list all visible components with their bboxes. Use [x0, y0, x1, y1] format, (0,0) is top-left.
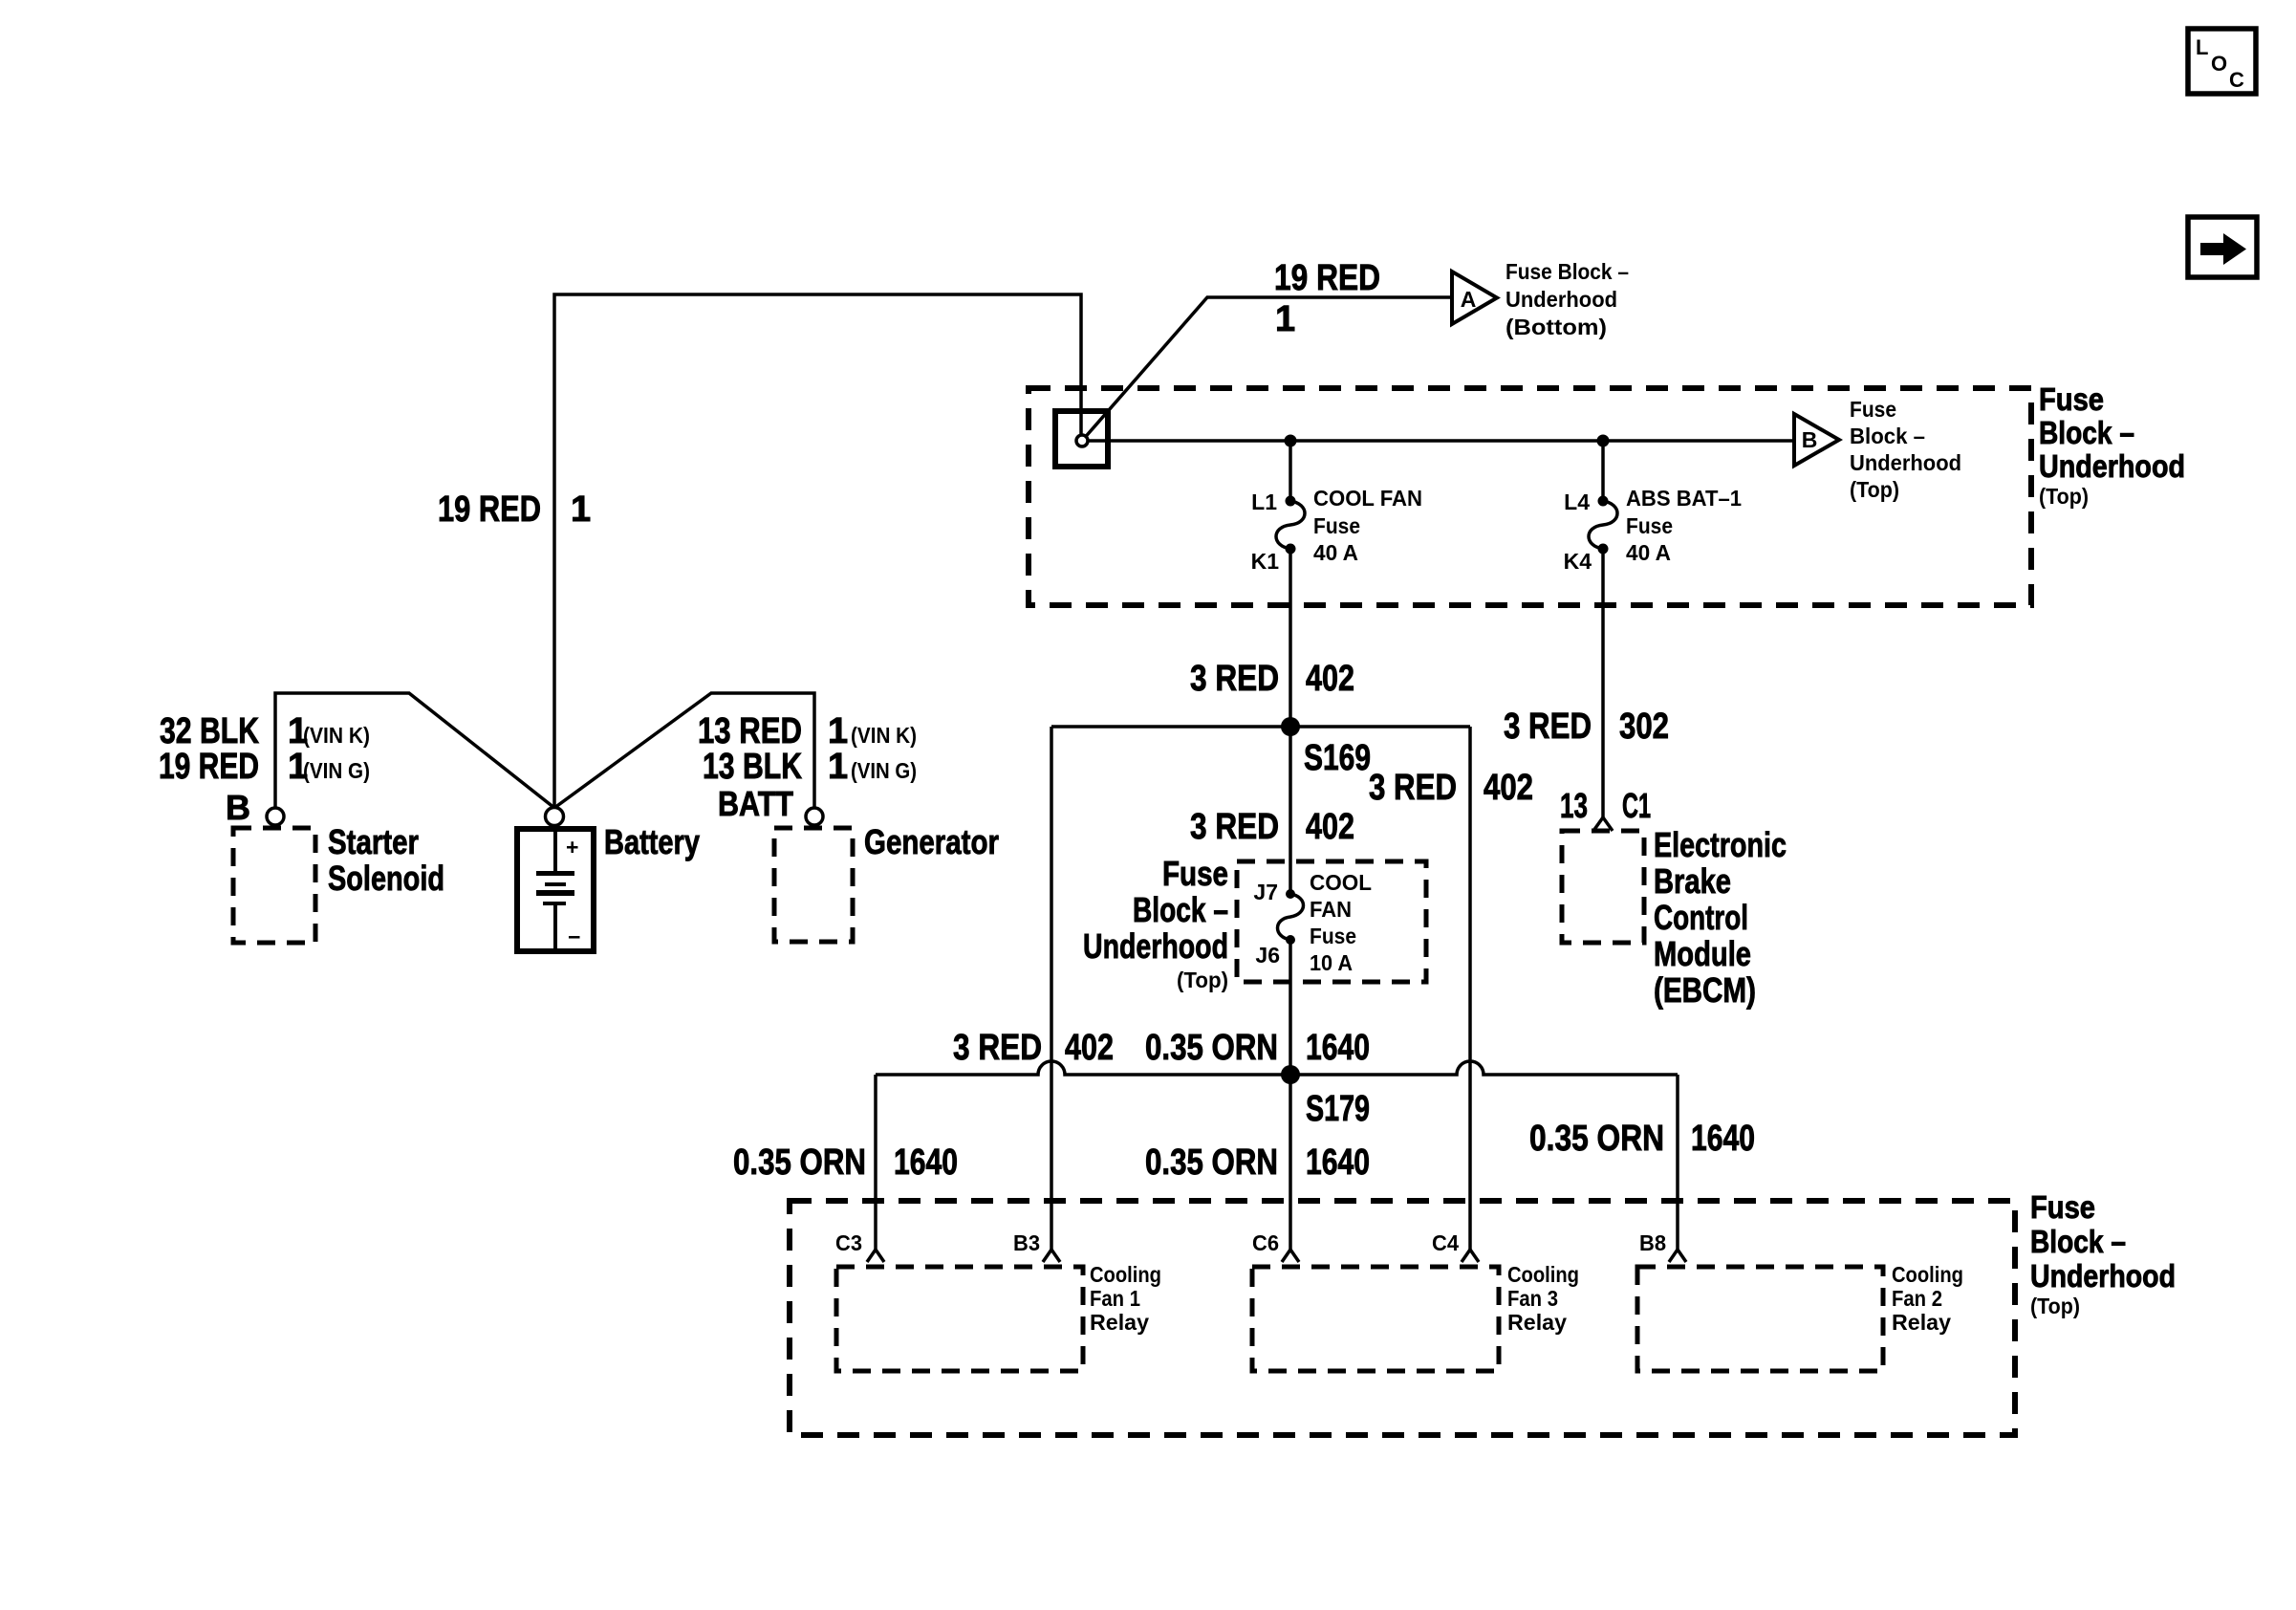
svg-text:A: A [1461, 287, 1477, 312]
svg-text:Fan 1: Fan 1 [1090, 1286, 1140, 1311]
splice S179 wire with crossover hops [876, 1061, 1678, 1129]
fuse COOL FAN 40 A element [1276, 496, 1305, 555]
svg-text:(Bottom): (Bottom) [1505, 315, 1607, 339]
svg-text:L1: L1 [1251, 490, 1277, 514]
cooling fan 1 relay (dashed outline) [836, 1267, 1083, 1371]
svg-text:C3: C3 [835, 1230, 862, 1255]
fuse block underhood (top) bottom big dashed box with relays [790, 1201, 2015, 1435]
cooling fan 3 relay (dashed outline) [1252, 1267, 1499, 1371]
wire 13 RED / 13 BLK from generator BATT to battery junction [554, 693, 814, 808]
svg-text:B3: B3 [1013, 1230, 1040, 1255]
off-page connector triangle B [1794, 414, 1839, 466]
svg-text:3 RED: 3 RED [953, 1028, 1042, 1068]
label 3 RED 402 above S179 left crossover [953, 1028, 1114, 1068]
svg-text:(Top): (Top) [1850, 477, 1899, 502]
svg-text:Fuse: Fuse [1310, 924, 1356, 948]
svg-text:Module: Module [1654, 934, 1751, 973]
connector chevron at C4 [1462, 1250, 1479, 1262]
wire 3 RED 402 left branch of S169 down to relay pin B3 [1050, 727, 1053, 1251]
wire diagonal from feed stud to off-page triangle A [1082, 297, 1452, 441]
label 19 RED 1 (VIN G) [159, 747, 370, 787]
battery feed stud (solid box with ring terminal) [1055, 411, 1108, 467]
electronic brake control module (dashed outline) [1562, 831, 1644, 943]
svg-text:BATT: BATT [718, 784, 793, 823]
fuse block underhood (top) big dashed box [1029, 388, 2031, 605]
wire 3 RED 402 from fuse K1 down to splice S169 [1289, 549, 1292, 727]
svg-text:1640: 1640 [894, 1142, 958, 1183]
wire 3 RED 302 from fuse K4 down to EBCM pin 13 [1601, 549, 1605, 817]
wire bus down to COOL FAN fuse terminal L1 [1289, 441, 1292, 501]
label 13 BLK 1 (VIN G) [703, 747, 917, 787]
svg-text:0.35 ORN: 0.35 ORN [1145, 1142, 1278, 1183]
svg-text:Relay: Relay [1507, 1310, 1567, 1335]
svg-text:C6: C6 [1252, 1230, 1279, 1255]
label Starter Solenoid [328, 822, 444, 898]
label 3 RED 302 [1504, 707, 1669, 747]
label ABS BAT-1 Fuse 40 A [1626, 486, 1742, 565]
label 3 RED 402 above S169 [1190, 659, 1354, 699]
svg-text:Fuse: Fuse [1162, 854, 1228, 893]
svg-text:Relay: Relay [1892, 1310, 1951, 1335]
label Cooling Fan 2 Relay [1892, 1262, 1963, 1335]
svg-text:Cooling: Cooling [1507, 1262, 1579, 1287]
terminal ring at starter solenoid B [267, 808, 284, 825]
svg-text:C4: C4 [1432, 1230, 1459, 1255]
splice S169 [1051, 717, 1470, 778]
svg-text:Underhood: Underhood [1850, 450, 1961, 475]
svg-text:1: 1 [828, 747, 848, 787]
svg-text:Cooling: Cooling [1892, 1262, 1963, 1287]
svg-text:40 A: 40 A [1626, 540, 1671, 565]
svg-text:Electronic: Electronic [1654, 825, 1787, 864]
svg-text:13 RED: 13 RED [698, 711, 802, 751]
generator (dashed outline) [774, 828, 853, 942]
label 0.35 ORN 1640 above S179 [1145, 1028, 1370, 1068]
svg-text:(VIN G): (VIN G) [851, 758, 917, 783]
svg-text:1: 1 [1275, 299, 1295, 339]
label Fuse Block - Underhood (Top) left of 10A fuse box [1083, 854, 1228, 992]
svg-text:(EBCM): (EBCM) [1654, 970, 1756, 1010]
svg-text:C: C [2229, 68, 2244, 92]
connector chevron at C3 [867, 1250, 884, 1262]
svg-text:402: 402 [1306, 807, 1354, 847]
svg-text:Fuse Block –: Fuse Block – [1505, 259, 1629, 284]
junction node bus to ABS BAT-1 fuse [1597, 435, 1610, 447]
svg-text:L: L [2196, 35, 2208, 59]
svg-text:+: + [566, 835, 578, 859]
svg-text:402: 402 [1306, 659, 1354, 699]
svg-text:B: B [1802, 427, 1818, 452]
svg-text:Relay: Relay [1090, 1310, 1149, 1335]
svg-text:402: 402 [1065, 1028, 1114, 1068]
connector chevron at B8 [1669, 1250, 1686, 1262]
svg-text:(VIN K): (VIN K) [851, 723, 917, 748]
svg-text:B8: B8 [1639, 1230, 1666, 1255]
label 0.35 ORN 1640 to C6 [1145, 1142, 1370, 1183]
connector chevron at C6 [1282, 1250, 1299, 1262]
svg-text:32 BLK: 32 BLK [160, 711, 259, 751]
label Fuse Block - Underhood (Top), destination of B [1850, 397, 1961, 502]
svg-text:3 RED: 3 RED [1504, 707, 1592, 747]
svg-text:COOL FAN: COOL FAN [1313, 486, 1422, 511]
wire 3 RED 402 from S169 down to fuse terminal J7 [1289, 727, 1292, 894]
svg-text:K4: K4 [1564, 549, 1592, 574]
svg-text:J6: J6 [1255, 943, 1280, 968]
battery symbol [517, 829, 594, 951]
svg-text:FAN: FAN [1310, 897, 1352, 922]
svg-text:19 RED: 19 RED [438, 490, 541, 530]
pin 13 and connector C1 labels [1560, 786, 1651, 825]
connector chevron at B3 [1043, 1250, 1060, 1262]
svg-text:Starter: Starter [328, 822, 419, 861]
svg-text:(Top): (Top) [2039, 484, 2089, 509]
label Electronic Brake Control Module (EBCM) [1654, 825, 1787, 1010]
svg-text:Block –: Block – [1850, 424, 1925, 448]
label Fuse Block - Underhood (Top) right of top box [2039, 381, 2185, 509]
off-page connector triangle A [1452, 272, 1497, 324]
svg-text:COOL: COOL [1310, 870, 1372, 895]
svg-text:402: 402 [1484, 768, 1533, 808]
svg-text:1: 1 [571, 490, 591, 530]
fuse block underhood (top) COOL FAN 10A dashed box [1237, 861, 1426, 982]
svg-text:Battery: Battery [604, 822, 700, 861]
wire 0.35 ORN 1640 from S179 to relay pin B8 [1676, 1075, 1679, 1251]
svg-text:1640: 1640 [1306, 1142, 1370, 1183]
svg-text:Fuse: Fuse [1850, 397, 1896, 422]
svg-text:3 RED: 3 RED [1190, 659, 1279, 699]
label Fuse Block - Underhood (Top) right of bottom box [2030, 1189, 2176, 1318]
svg-text:10 A: 10 A [1310, 950, 1353, 975]
terminal ring at generator BATT [806, 808, 823, 825]
label COOL FAN Fuse 40 A [1313, 486, 1422, 565]
svg-text:Block –: Block – [2030, 1224, 2126, 1259]
svg-text:0.35 ORN: 0.35 ORN [1529, 1119, 1664, 1159]
svg-text:19 RED: 19 RED [159, 747, 259, 787]
svg-text:Fan 3: Fan 3 [1507, 1286, 1558, 1311]
svg-text:3 RED: 3 RED [1369, 768, 1457, 808]
wire 3 RED 402 right branch of S169 down to relay pin C4 [1468, 727, 1472, 1251]
svg-text:Fuse: Fuse [2039, 381, 2104, 417]
svg-text:C1: C1 [1622, 786, 1651, 825]
svg-text:13: 13 [1560, 786, 1588, 825]
label 32 BLK 1 (VIN K) [160, 711, 370, 751]
svg-text:Underhood: Underhood [2039, 448, 2185, 484]
svg-text:Block –: Block – [2039, 415, 2134, 450]
svg-text:Fuse: Fuse [2030, 1189, 2095, 1225]
svg-text:O: O [2211, 52, 2227, 76]
svg-text:Fan 2: Fan 2 [1892, 1286, 1942, 1311]
svg-text:S169: S169 [1304, 738, 1371, 778]
label 3 RED 402 above J7 [1190, 807, 1354, 847]
svg-text:302: 302 [1619, 707, 1669, 747]
svg-text:40 A: 40 A [1313, 540, 1358, 565]
svg-text:−: − [568, 925, 580, 949]
fuse COOL FAN 10 A element [1278, 889, 1304, 945]
label Cooling Fan 3 Relay [1507, 1262, 1579, 1335]
svg-text:ABS BAT–1: ABS BAT–1 [1626, 486, 1742, 511]
svg-text:Underhood: Underhood [1083, 926, 1228, 966]
svg-text:L4: L4 [1564, 490, 1590, 514]
wire 0.35 ORN 1640 from S179 to relay pin C3 [874, 1075, 877, 1251]
svg-text:1: 1 [828, 711, 848, 751]
cooling fan 2 relay (dashed outline) [1637, 1267, 1883, 1371]
svg-text:J7: J7 [1253, 880, 1278, 904]
svg-text:Fuse: Fuse [1626, 513, 1673, 538]
svg-text:1640: 1640 [1306, 1028, 1370, 1068]
svg-text:19 RED: 19 RED [1274, 258, 1380, 298]
svg-text:Underhood: Underhood [1505, 287, 1617, 312]
svg-text:Fuse: Fuse [1313, 513, 1360, 538]
label COOL FAN Fuse 10 A [1310, 870, 1372, 975]
bus wire from feed stud to triangle B [1082, 439, 1794, 443]
svg-text:Underhood: Underhood [2030, 1258, 2176, 1294]
forward arrow navigation box [2188, 217, 2257, 277]
svg-text:Generator: Generator [864, 822, 999, 861]
svg-text:K1: K1 [1251, 549, 1280, 574]
svg-text:0.35 ORN: 0.35 ORN [1145, 1028, 1278, 1068]
label Fuse Block - Underhood (Bottom), destination of A [1505, 259, 1629, 339]
label 0.35 ORN 1640 to C3 [733, 1142, 958, 1183]
label 13 RED 1 (VIN K) [698, 711, 917, 751]
svg-text:0.35 ORN: 0.35 ORN [733, 1142, 866, 1183]
label 19 RED circuit 1 on battery riser [438, 490, 591, 530]
starter solenoid (dashed outline) [233, 828, 315, 943]
svg-text:1640: 1640 [1691, 1119, 1755, 1159]
wire 32 BLK / 19 RED from starter solenoid B to battery junction [275, 693, 554, 808]
svg-text:Cooling: Cooling [1090, 1262, 1161, 1287]
label 3 RED 402 on right branch [1369, 768, 1533, 808]
svg-text:(Top): (Top) [2030, 1294, 2080, 1318]
label Cooling Fan 1 Relay [1090, 1262, 1161, 1335]
fuse ABS BAT-1 40 A element [1589, 496, 1617, 555]
svg-text:S179: S179 [1306, 1089, 1370, 1129]
svg-text:3 RED: 3 RED [1190, 807, 1279, 847]
label 19 RED circuit 1 near triangle A [1274, 258, 1380, 339]
svg-text:(VIN K): (VIN K) [303, 723, 370, 748]
LOC legend box [2188, 29, 2256, 94]
svg-text:Block –: Block – [1133, 890, 1228, 929]
terminal ring at battery positive [546, 808, 564, 826]
connector chevron at EBCM pin 13 [1593, 817, 1613, 831]
svg-text:13 BLK: 13 BLK [703, 747, 802, 787]
svg-text:Brake: Brake [1654, 861, 1731, 901]
svg-text:B: B [226, 788, 250, 827]
svg-text:(VIN G): (VIN G) [303, 758, 370, 783]
svg-text:Solenoid: Solenoid [328, 859, 444, 898]
junction node bus to COOL FAN fuse [1285, 435, 1297, 447]
wire 0.35 ORN 1640 from J6 down through splice S179 to relay pin C6 [1289, 940, 1292, 1251]
wire bus down to ABS BAT-1 fuse terminal L4 [1601, 441, 1605, 501]
label 0.35 ORN 1640 to B8 [1529, 1119, 1755, 1159]
svg-text:Control: Control [1654, 898, 1748, 937]
wire 19 RED 1 from battery positive up and over to fuse block feed stud [554, 294, 1081, 808]
svg-text:(Top): (Top) [1177, 968, 1228, 992]
